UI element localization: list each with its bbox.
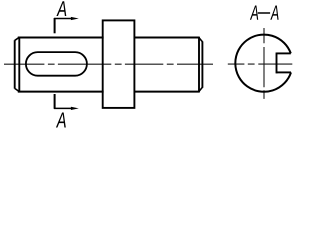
label A (second, section title) (270, 6, 278, 20)
chamfer bottom-left diagonal (15, 88, 20, 91)
label A (top) (56, 1, 66, 16)
keyway slot (stadium outline) (26, 52, 87, 76)
shaft bottom edge (left section) (18, 91, 104, 93)
shaft top edge (left section) (18, 37, 104, 39)
chamfer top-left diagonal (15, 37, 20, 40)
section circle with keyway gap (235, 35, 291, 92)
section view A-A : vertical center line (263, 28, 265, 99)
em dash of section label (258, 12, 270, 14)
arrowhead (top) (71, 17, 79, 20)
cutting plane thick stroke (top) (54, 18, 56, 33)
center line (shaft axis, dash-dot) (4, 63, 213, 65)
chamfer edge line (left) (18, 37, 20, 93)
chamfer bottom-right diagonal (199, 87, 202, 91)
keyway slot bottom (vertical) (276, 53, 278, 74)
keyway slot bottom side (277, 71, 292, 73)
collar (flange) rectangle (103, 20, 135, 108)
shaft bottom edge (right section) (134, 91, 199, 93)
keyway slot top side (277, 52, 291, 54)
arrowhead (bottom) (71, 107, 79, 110)
label A (bottom) (56, 112, 66, 127)
chamfer edge line (right) (198, 37, 200, 93)
shaft right end face (201, 41, 203, 87)
shaft left end face (14, 40, 16, 88)
sight arrow line (bottom) (54, 107, 72, 109)
cutting plane thick stroke (bottom) (54, 94, 56, 109)
sight arrow line (top) (54, 18, 72, 20)
section view A-A : horizontal center line (228, 63, 292, 65)
chamfer top-right diagonal (199, 38, 202, 42)
label A-A (section title) (250, 6, 258, 20)
shaft top edge (right section) (134, 37, 199, 39)
